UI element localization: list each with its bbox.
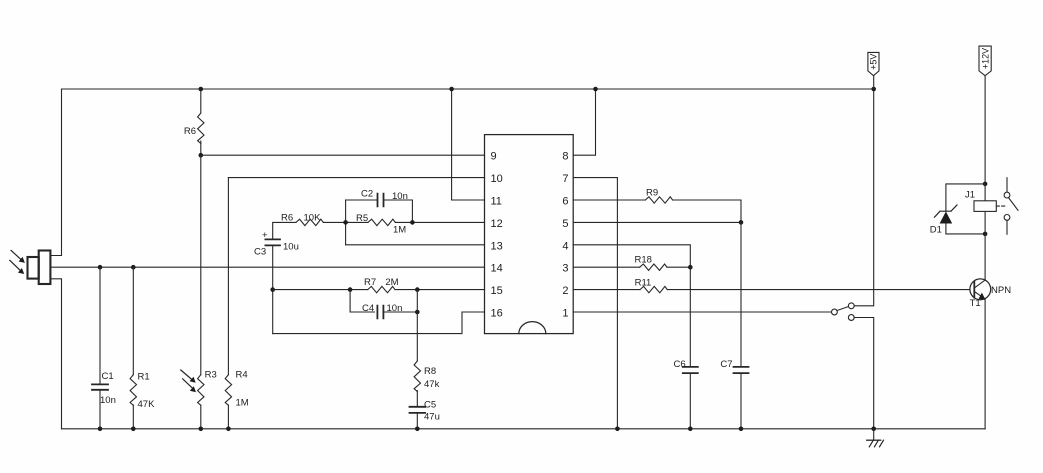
svg-text:C7: C7 (720, 359, 732, 370)
wire bottom rail (62, 428, 986, 430)
wire pin14 from sensor (50, 266, 484, 268)
svg-text:16: 16 (491, 308, 503, 320)
diode D1 loop (946, 184, 985, 234)
wire top rail (62, 88, 874, 90)
svg-text:R18: R18 (635, 255, 652, 266)
svg-text:13: 13 (491, 240, 503, 252)
wire pin7 (573, 178, 617, 429)
svg-text:15: 15 (491, 285, 503, 297)
svg-text:R7: R7 (364, 277, 376, 288)
capacitor C4 branch (350, 290, 417, 312)
switch S1 (832, 309, 838, 315)
svg-text:R1: R1 (138, 372, 150, 383)
svg-text:9: 9 (491, 151, 497, 163)
node C3 pin15 junction (270, 287, 275, 292)
svg-text:R8: R8 (424, 366, 436, 377)
svg-text:11: 11 (491, 196, 502, 208)
relay contact (996, 205, 1006, 207)
svg-text:1M: 1M (236, 398, 249, 409)
svg-text:10n: 10n (392, 191, 408, 202)
svg-text:J1: J1 (965, 190, 975, 201)
wire pin6 with resistor R9 (573, 199, 645, 201)
wire pin5 (573, 221, 741, 223)
capacitor C6 (689, 267, 691, 429)
ground symbol (873, 429, 875, 440)
power flag +5V (868, 52, 879, 75)
svg-text:47u: 47u (424, 412, 440, 423)
svg-text:12: 12 (491, 218, 503, 230)
wire pin2 with resistor R11 (573, 289, 640, 291)
svg-text:R6: R6 (184, 126, 196, 137)
svg-text:NPN: NPN (991, 285, 1011, 296)
node R6 top junction (199, 87, 204, 92)
wire pin15 with resistor R7 (273, 289, 368, 291)
svg-text:R4: R4 (236, 370, 248, 381)
svg-text:1: 1 (562, 308, 568, 320)
svg-text:10: 10 (491, 173, 503, 185)
svg-text:+: + (262, 230, 268, 241)
resistor R1 (132, 267, 134, 429)
svg-text:10n: 10n (387, 303, 403, 314)
wire left rail lower (50, 279, 61, 429)
svg-text:R5: R5 (356, 213, 368, 224)
power flag +12V (979, 46, 991, 76)
svg-text:C5: C5 (424, 400, 436, 411)
svg-text:R3: R3 (205, 370, 217, 381)
capacitor C1 (99, 267, 101, 429)
svg-text:8: 8 (562, 151, 568, 163)
wire pin13 (346, 244, 485, 246)
svg-text:+12V: +12V (980, 48, 990, 69)
svg-text:C2: C2 (361, 189, 373, 200)
svg-text:7: 7 (562, 173, 568, 185)
op IC U1 box (485, 135, 574, 334)
svg-text:C6: C6 (674, 359, 686, 370)
svg-text:10n: 10n (100, 395, 116, 406)
svg-text:6: 6 (562, 196, 568, 208)
svg-text:2: 2 (562, 285, 568, 297)
node R1 top (131, 265, 136, 270)
wire pin10 (228, 177, 484, 179)
wire pin1 (573, 311, 831, 313)
svg-text:10K: 10K (304, 212, 322, 223)
resistor R6 (vertical, top-left) (200, 89, 202, 155)
wire pin9 (201, 154, 485, 156)
capacitor C2 branch (345, 200, 347, 245)
node C1 top (98, 265, 103, 270)
transistor T1 NPN (970, 279, 991, 300)
svg-text:C3: C3 (254, 247, 266, 258)
svg-text:3: 3 (562, 263, 568, 275)
wire pin3 with resistor R18 (573, 266, 640, 268)
svg-text:47K: 47K (138, 399, 156, 410)
wire pin4 (573, 245, 690, 267)
svg-text:R9: R9 (646, 188, 658, 199)
node R6 bottom junction (199, 153, 204, 158)
wire pin11 vertical from top rail (452, 89, 485, 200)
capacitor C7 (740, 222, 742, 428)
svg-text:D1: D1 (930, 225, 942, 236)
diode D1 symbol (940, 212, 953, 224)
resistor R4 (227, 178, 229, 429)
svg-text:2M: 2M (385, 277, 398, 288)
relay J1 coil (984, 184, 986, 234)
svg-text:47k: 47k (424, 379, 440, 390)
svg-text:R6: R6 (281, 212, 293, 223)
capacitor C3 with resistor R6 10K (273, 222, 296, 239)
svg-text:10u: 10u (283, 242, 299, 253)
svg-text:C4: C4 (362, 303, 374, 314)
photodiode sensor PH1 (28, 251, 51, 285)
wire C3 bottom to pin16 (273, 312, 485, 334)
svg-text:C1: C1 (102, 371, 114, 382)
svg-text:+5V: +5V (869, 54, 879, 70)
node pin11 top (449, 87, 454, 92)
svg-text:4: 4 (562, 240, 568, 252)
resistor R8 and capacitor C5 (416, 290, 418, 429)
wire left rail upper (50, 89, 61, 256)
svg-text:T1: T1 (970, 298, 981, 309)
svg-text:1M: 1M (393, 225, 406, 236)
svg-text:R11: R11 (635, 278, 652, 289)
resistor R3 photoresistor (200, 155, 202, 429)
resistor R5 (346, 221, 368, 223)
svg-text:14: 14 (491, 263, 503, 275)
svg-text:5: 5 (562, 218, 568, 230)
wire pin8 (573, 89, 595, 155)
